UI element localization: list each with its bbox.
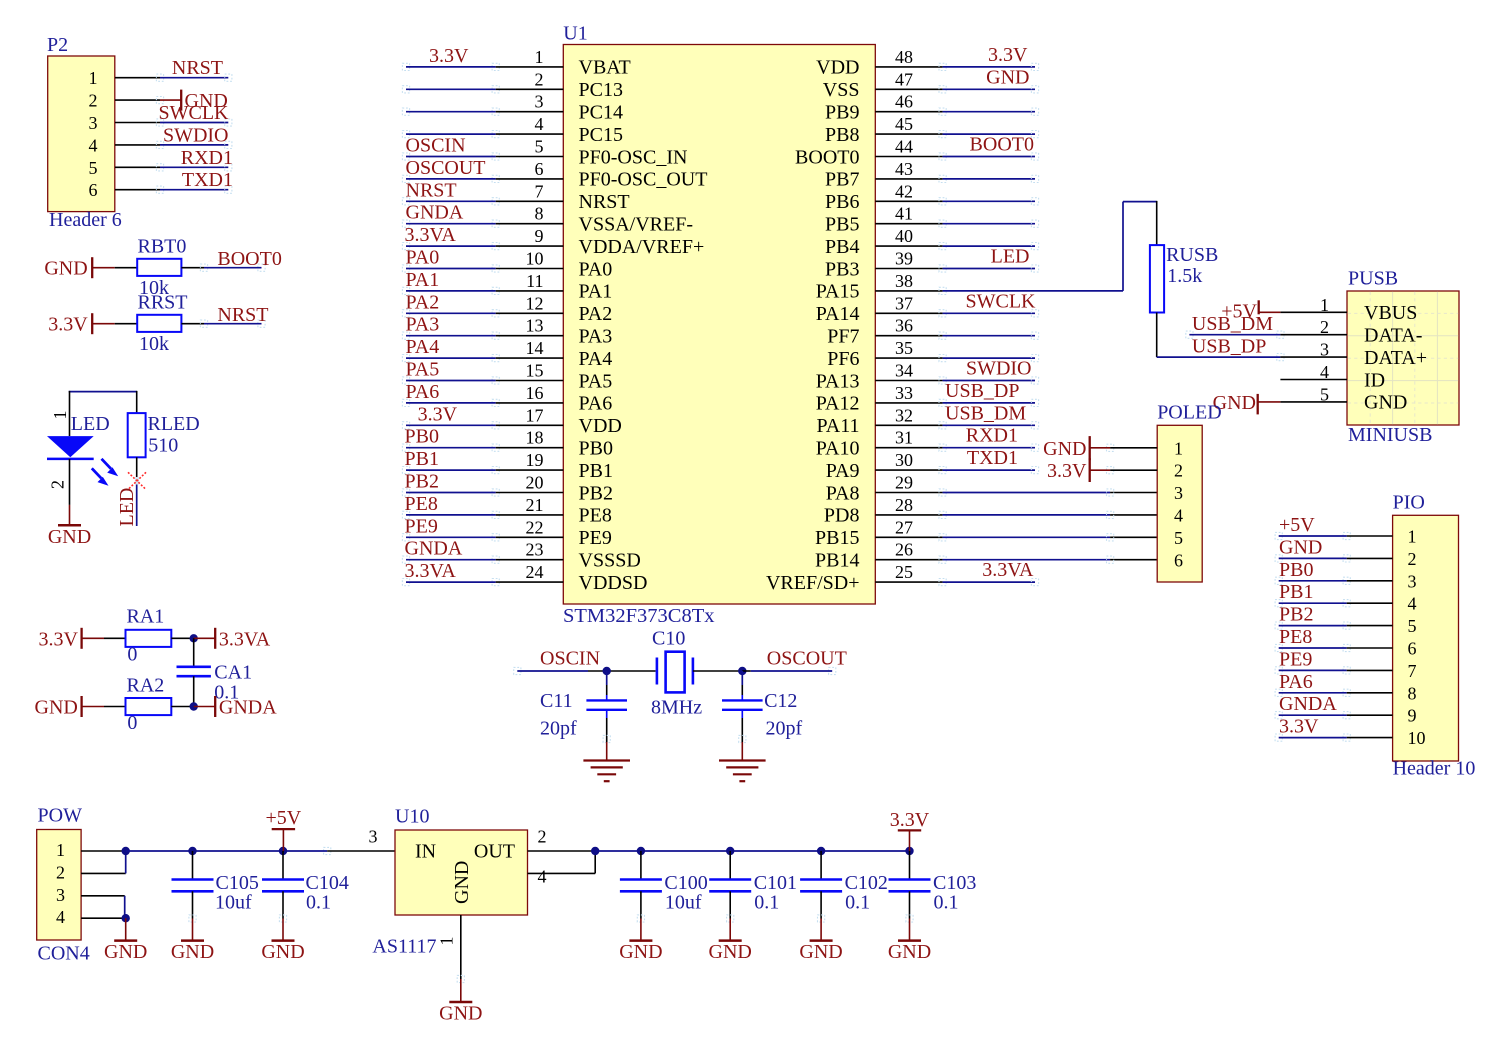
U1 pin 12 (PA2) wire (402, 291, 612, 325)
svg-text:10uf: 10uf (215, 891, 252, 913)
svg-text:PB1: PB1 (1279, 581, 1313, 603)
power port GND (PUSB pin5) (1213, 392, 1281, 415)
svg-text:+5V: +5V (1221, 300, 1257, 322)
PIO pin 5 wire net PB2 (1275, 604, 1416, 637)
svg-text:10: 10 (1408, 728, 1426, 748)
svg-text:1: 1 (1408, 527, 1417, 547)
no-ERC marker (red X) (128, 472, 146, 489)
svg-text:PB1: PB1 (405, 448, 439, 470)
svg-text:PA15: PA15 (816, 281, 860, 303)
U1 pin 18 (PB0) wire (402, 426, 613, 460)
POLED pin 1 (1107, 438, 1184, 458)
svg-text:510: 510 (148, 434, 178, 456)
wire POW pins 3-4 join (124, 896, 126, 918)
POW pin 1 (56, 840, 126, 860)
svg-text:GND: GND (261, 941, 304, 963)
U1 pin 34 (PA13) wire (816, 358, 1039, 393)
svg-text:GND: GND (1364, 392, 1407, 414)
U1 pin 47 (VSS) wire (823, 66, 1039, 101)
U1 pin 19 (PB1) wire (402, 448, 613, 482)
svg-text:GND: GND (1043, 438, 1086, 460)
earth ground (C12) (719, 742, 766, 781)
svg-text:NRST: NRST (217, 304, 268, 326)
svg-text:10uf: 10uf (665, 891, 702, 913)
svg-text:40: 40 (895, 226, 913, 246)
svg-text:0: 0 (127, 644, 137, 666)
wire LED cathode to ground (69, 459, 71, 505)
U1 pin 14 (PA4) wire (402, 336, 612, 370)
node junction POW pin1 (122, 847, 130, 855)
ground GND (POW) (104, 918, 147, 963)
svg-text:PE9: PE9 (579, 527, 612, 549)
U1 pin 11 (PA1) wire (402, 269, 612, 303)
svg-text:2: 2 (538, 827, 547, 847)
svg-text:24: 24 (526, 562, 544, 582)
svg-text:3.3VA: 3.3VA (405, 224, 457, 246)
svg-text:PA1: PA1 (406, 269, 440, 291)
node junction RA2/CA1 (190, 702, 198, 710)
svg-text:20pf: 20pf (766, 718, 803, 740)
U1 pin 15 (PA5) wire (402, 359, 612, 393)
svg-text:PB2: PB2 (1279, 604, 1313, 626)
POLED pin 3 (1174, 483, 1183, 503)
U1 pin 4 (PC15) wire (402, 114, 623, 146)
P2 pin 1 wire (89, 57, 232, 88)
svg-text:PA14: PA14 (816, 303, 860, 325)
svg-text:PIO: PIO (1393, 492, 1425, 514)
wire net OSCIN (514, 648, 656, 675)
svg-text:PA2: PA2 (406, 291, 440, 313)
U1 pin 23 (VSSSD) wire (402, 538, 640, 572)
P2 pin 5 wire (89, 147, 234, 178)
svg-text:PB2: PB2 (579, 482, 613, 504)
PUSB pin 4 (ID) (1280, 362, 1385, 391)
svg-text:PA3: PA3 (579, 326, 613, 348)
svg-text:PA1: PA1 (579, 281, 613, 303)
svg-text:PA9: PA9 (826, 460, 860, 482)
svg-text:3.3V: 3.3V (38, 628, 78, 650)
svg-text:PB14: PB14 (815, 550, 859, 572)
svg-text:PB0: PB0 (405, 426, 439, 448)
U1 pin 26 (PB14) wire (815, 540, 1157, 572)
svg-text:PA13: PA13 (816, 370, 860, 392)
resistor RLED 510 (128, 413, 200, 457)
U1 pin 27 (PB15) wire (815, 517, 1157, 549)
svg-text:2: 2 (89, 91, 98, 111)
wire net LED (below RLED) (116, 457, 138, 526)
capacitor C103 0.1 (889, 847, 977, 919)
U10 pin 1 (GND) wire (437, 915, 461, 979)
svg-text:3.3V: 3.3V (1047, 460, 1087, 482)
svg-text:P2: P2 (47, 34, 68, 56)
ground GND (C100) (619, 915, 662, 963)
svg-text:30: 30 (895, 450, 913, 470)
svg-text:18: 18 (526, 428, 544, 448)
svg-text:2: 2 (56, 862, 65, 882)
power port +5V (PUSB pin1) (1221, 300, 1280, 322)
svg-text:2: 2 (1408, 549, 1417, 569)
svg-text:25: 25 (895, 562, 913, 582)
svg-text:1: 1 (89, 68, 98, 88)
svg-text:GND: GND (799, 941, 842, 963)
svg-text:GND: GND (171, 941, 214, 963)
svg-text:3.3VA: 3.3VA (405, 560, 457, 582)
svg-text:41: 41 (895, 204, 913, 224)
svg-text:DATA-: DATA- (1364, 325, 1422, 347)
svg-text:36: 36 (895, 316, 913, 336)
U1 pin 25 (VREF/SD+) wire (766, 559, 1039, 594)
U1 pin 13 (PA3) wire (402, 314, 612, 348)
svg-text:7: 7 (1408, 661, 1417, 681)
capacitor C105 10uf (172, 847, 259, 919)
svg-text:17: 17 (526, 405, 544, 425)
svg-text:PF7: PF7 (827, 326, 859, 348)
svg-text:+5V: +5V (1279, 514, 1315, 536)
svg-text:SWDIO: SWDIO (163, 124, 229, 146)
svg-text:PB3: PB3 (825, 258, 859, 280)
svg-text:0: 0 (127, 712, 137, 734)
svg-text:27: 27 (895, 517, 913, 537)
node junction POW pin4 (122, 914, 130, 922)
svg-text:1: 1 (50, 411, 70, 420)
P2 pin 6 wire (89, 169, 234, 200)
U1 pin 46 (PB9) wire (825, 92, 1039, 124)
svg-text:8: 8 (535, 204, 544, 224)
svg-text:USB_DP: USB_DP (945, 380, 1019, 402)
svg-text:44: 44 (895, 137, 913, 157)
svg-text:PA4: PA4 (406, 336, 440, 358)
svg-text:PF6: PF6 (827, 348, 859, 370)
svg-text:PB8: PB8 (825, 124, 859, 146)
PIO pin 10 wire net 3.3V (1275, 716, 1425, 749)
svg-text:39: 39 (895, 249, 913, 269)
svg-text:GNDA: GNDA (1279, 693, 1337, 715)
svg-text:C12: C12 (764, 690, 797, 712)
svg-text:6: 6 (535, 159, 544, 179)
svg-text:AS1117: AS1117 (372, 936, 436, 958)
svg-text:PE9: PE9 (1279, 648, 1312, 670)
svg-text:GND: GND (35, 697, 78, 719)
svg-text:12: 12 (526, 293, 544, 313)
capacitor C11 20pf (540, 671, 627, 743)
connector POW (CON4) (37, 805, 90, 965)
svg-text:0.1: 0.1 (934, 891, 959, 913)
U1 pin 29 (PA8) wire (826, 473, 1157, 505)
svg-text:PA8: PA8 (826, 482, 860, 504)
svg-text:8: 8 (1408, 683, 1417, 703)
svg-text:PA11: PA11 (817, 415, 860, 437)
power port 3.3VA (194, 628, 271, 651)
svg-text:10k: 10k (139, 333, 169, 355)
ground GND (LED) (48, 505, 91, 548)
U1 pin 36 (PF7) wire (827, 316, 1038, 348)
wire +5V rail (POW to U10 IN) (126, 847, 395, 854)
U1 pin 38 (PA15) wire (816, 271, 946, 303)
svg-text:7: 7 (535, 181, 544, 201)
ground GND (U10) (439, 975, 482, 1024)
svg-text:Header 10: Header 10 (1393, 758, 1476, 780)
U1 pin 22 (PE9) wire (402, 515, 611, 549)
svg-text:29: 29 (895, 473, 913, 493)
svg-text:PB9: PB9 (825, 102, 859, 124)
svg-text:3.3V: 3.3V (418, 403, 458, 425)
svg-text:NRST: NRST (172, 57, 223, 79)
svg-text:PB1: PB1 (579, 460, 613, 482)
svg-text:GNDA: GNDA (219, 697, 277, 719)
svg-text:5: 5 (535, 137, 544, 157)
U1 pin 35 (PF6) wire (827, 338, 1038, 370)
wire net PA15 to RUSB (943, 201, 1157, 291)
svg-text:U1: U1 (563, 23, 587, 45)
svg-text:VDDA/VREF+: VDDA/VREF+ (579, 236, 705, 258)
svg-text:ID: ID (1364, 369, 1385, 391)
svg-text:OSCIN: OSCIN (406, 135, 466, 157)
U1 pin 17 (VDD) wire (402, 403, 621, 437)
svg-text:37: 37 (895, 293, 913, 313)
svg-text:SWCLK: SWCLK (966, 290, 1037, 312)
resistor RRST 10k (115, 292, 204, 356)
U1 pin 16 (PA6) wire (402, 381, 612, 415)
PIO pin 6 wire net PE8 (1275, 626, 1416, 659)
svg-text:GND: GND (48, 526, 91, 548)
power port 3.3V (rail end) (890, 809, 930, 851)
svg-text:VSSA/VREF-: VSSA/VREF- (579, 214, 693, 236)
svg-text:45: 45 (895, 114, 913, 134)
power port GNDA (194, 696, 278, 719)
svg-text:4: 4 (89, 135, 98, 155)
svg-text:PB0: PB0 (579, 438, 613, 460)
svg-text:PA0: PA0 (579, 258, 613, 280)
capacitor C100 10uf (620, 847, 708, 919)
svg-text:Header 6: Header 6 (49, 209, 122, 231)
power port GND (RA2 input) (35, 696, 104, 719)
U1 pin 45 (PB8) wire (825, 114, 1039, 146)
svg-text:RUSB: RUSB (1166, 244, 1218, 266)
svg-text:PF0-OSC_OUT: PF0-OSC_OUT (579, 169, 708, 191)
ground GND (C104) (261, 915, 304, 963)
svg-text:VREF/SD+: VREF/SD+ (766, 572, 860, 594)
svg-text:OSCOUT: OSCOUT (406, 157, 486, 179)
svg-text:RLED: RLED (148, 413, 200, 435)
P2 pin 2 wire (89, 90, 228, 113)
svg-text:3: 3 (1174, 483, 1183, 503)
power port GND (RBT0 input) (44, 257, 114, 280)
U1 pin 8 (VSSA/VREF-) wire (402, 202, 693, 236)
PIO pin 4 wire net PB1 (1275, 581, 1416, 614)
svg-text:5: 5 (89, 158, 98, 178)
wire net USB_DP (RUSB to PUSB pin3) (1157, 313, 1284, 361)
svg-text:PA6: PA6 (406, 381, 440, 403)
wire net NRST (200, 304, 268, 327)
svg-text:PA4: PA4 (579, 348, 613, 370)
U1 pin 32 (PA11) wire (817, 402, 1039, 437)
U1 pin 9 (VDDA/VREF+) wire (402, 224, 704, 258)
U1 pin 31 (PA10) wire (816, 425, 1039, 460)
U1 pin 7 (NRST) wire (402, 179, 629, 213)
svg-text:RA1: RA1 (127, 605, 165, 627)
POLED pin 2 (1107, 461, 1184, 481)
svg-text:GNDA: GNDA (405, 538, 463, 560)
svg-text:SWCLK: SWCLK (159, 102, 230, 124)
svg-text:PA2: PA2 (579, 303, 613, 325)
svg-text:4: 4 (1174, 506, 1183, 526)
svg-text:PA5: PA5 (579, 370, 613, 392)
capacitor C102 0.1 (800, 847, 888, 919)
node junction OSCOUT (738, 667, 746, 675)
svg-text:OSCIN: OSCIN (540, 648, 600, 670)
earth ground (C11) (583, 742, 630, 781)
svg-text:26: 26 (895, 540, 913, 560)
svg-text:22: 22 (526, 517, 544, 537)
svg-text:4: 4 (1408, 594, 1417, 614)
svg-text:VBAT: VBAT (579, 57, 631, 79)
svg-text:GND: GND (709, 941, 752, 963)
power port GND (POLED pin1) (1043, 436, 1110, 460)
svg-text:RXD1: RXD1 (181, 147, 233, 169)
U1 pin 48 (VDD) wire (816, 44, 1038, 79)
ground GND (C103) (888, 915, 931, 963)
svg-text:RBT0: RBT0 (138, 236, 187, 258)
svg-text:POLED: POLED (1157, 402, 1221, 424)
svg-text:3: 3 (89, 113, 98, 133)
wire net OSCOUT (742, 648, 847, 675)
IC U1 STM32F373C8Tx (563, 23, 875, 627)
svg-text:STM32F373C8Tx: STM32F373C8Tx (563, 605, 715, 627)
svg-text:11: 11 (526, 271, 543, 291)
svg-text:3: 3 (369, 827, 378, 847)
svg-text:GNDA: GNDA (406, 202, 464, 224)
svg-text:21: 21 (526, 495, 544, 515)
U1 pin 1 (VBAT) wire (402, 45, 630, 79)
wire net BOOT0 (200, 248, 281, 271)
svg-text:TXD1: TXD1 (182, 169, 233, 191)
svg-text:GND: GND (888, 941, 931, 963)
svg-text:USB_DM: USB_DM (945, 402, 1026, 424)
U1 pin 33 (PA12) wire (816, 380, 1039, 415)
svg-text:0.1: 0.1 (754, 891, 779, 913)
svg-text:PA6: PA6 (579, 393, 613, 415)
svg-text:OSCOUT: OSCOUT (767, 648, 847, 670)
resistor RA1 0 (104, 605, 194, 665)
svg-text:48: 48 (895, 47, 913, 67)
svg-text:NRST: NRST (406, 179, 457, 201)
svg-text:+5V: +5V (266, 807, 302, 829)
node junction U10 OUT (591, 847, 599, 855)
resistor RA2 0 (104, 675, 194, 734)
svg-text:20: 20 (526, 473, 544, 493)
ground GND (C102) (799, 915, 842, 963)
svg-text:USB_DP: USB_DP (1192, 335, 1266, 357)
svg-text:42: 42 (895, 181, 913, 201)
PIO pin 1 wire net +5V (1275, 514, 1416, 547)
svg-text:LED: LED (116, 488, 138, 527)
svg-text:NRST: NRST (579, 191, 630, 213)
svg-text:PE8: PE8 (405, 493, 438, 515)
U1 pin 37 (PA14) wire (816, 290, 1039, 325)
capacitor C104 0.1 (262, 847, 349, 919)
svg-text:PC13: PC13 (579, 79, 623, 101)
svg-text:RRST: RRST (138, 292, 188, 314)
node junction OSCIN (603, 667, 611, 675)
svg-text:1: 1 (56, 840, 65, 860)
svg-text:IN: IN (415, 841, 436, 863)
svg-text:PB15: PB15 (815, 527, 859, 549)
svg-text:PB6: PB6 (825, 191, 859, 213)
POW pin 3 (56, 885, 125, 905)
svg-text:PB2: PB2 (405, 471, 439, 493)
capacitor CA1 0.1 (177, 638, 253, 706)
svg-text:GND: GND (451, 861, 473, 904)
svg-text:2: 2 (48, 480, 68, 489)
svg-text:31: 31 (895, 428, 913, 448)
svg-text:1: 1 (1174, 438, 1183, 458)
svg-text:BOOT0: BOOT0 (217, 248, 281, 270)
resistor RUSB 1.5k (1150, 244, 1218, 313)
svg-text:BOOT0: BOOT0 (970, 134, 1034, 156)
svg-text:1.5k: 1.5k (1167, 265, 1202, 287)
U1 pin 10 (PA0) wire (402, 247, 612, 281)
svg-text:14: 14 (526, 338, 544, 358)
svg-text:VDDSD: VDDSD (579, 572, 648, 594)
wire POW pins 1-2 join (125, 851, 127, 873)
svg-text:PD8: PD8 (824, 505, 860, 527)
svg-text:23: 23 (526, 540, 544, 560)
svg-text:0.1: 0.1 (845, 891, 870, 913)
PUSB pin 2 (DATA-) (1280, 317, 1422, 346)
svg-text:PA10: PA10 (816, 438, 860, 460)
U1 pin 42 (PB6) wire (825, 181, 1039, 213)
svg-text:15: 15 (526, 361, 544, 381)
svg-text:VSS: VSS (823, 79, 860, 101)
P2 pin 3 wire (89, 102, 232, 133)
power port 3.3V (POLED pin2) (1047, 458, 1110, 482)
U10 pin 4 wire (528, 851, 596, 887)
svg-text:38: 38 (895, 271, 913, 291)
svg-text:3.3V: 3.3V (1279, 716, 1319, 738)
svg-text:BOOT0: BOOT0 (795, 146, 859, 168)
svg-text:DATA+: DATA+ (1364, 347, 1427, 369)
U1 pin 44 (BOOT0) wire (795, 134, 1039, 169)
PIO pin 2 wire net GND (1275, 536, 1416, 569)
svg-text:13: 13 (526, 316, 544, 336)
U1 pin 39 (PB3) wire (825, 246, 1039, 281)
svg-text:4: 4 (538, 867, 547, 887)
svg-text:32: 32 (895, 405, 913, 425)
POW pin 2 (56, 862, 126, 882)
wire 3.3V rail (U10 OUT to caps) (595, 850, 910, 852)
svg-text:GND: GND (439, 1003, 482, 1025)
power port 3.3V (RRST input) (48, 313, 114, 336)
svg-text:19: 19 (526, 450, 544, 470)
svg-text:43: 43 (895, 159, 913, 179)
svg-text:20pf: 20pf (540, 718, 577, 740)
svg-text:PB7: PB7 (825, 169, 859, 191)
svg-text:RXD1: RXD1 (966, 425, 1018, 447)
svg-text:GND: GND (986, 66, 1029, 88)
svg-text:3.3VA: 3.3VA (982, 559, 1034, 581)
PUSB pin 1 (VBUS) (1280, 295, 1417, 324)
U1 pin 28 (PD8) wire (824, 495, 1157, 527)
connector PUSB (MINIUSB) (1347, 268, 1459, 446)
svg-text:PA12: PA12 (816, 393, 860, 415)
power port 3.3V (RA1 input) (38, 628, 104, 651)
svg-text:6: 6 (1408, 639, 1417, 659)
regulator U10 AS1117 (372, 806, 527, 958)
U1 pin 40 (PB4) wire (825, 226, 1039, 258)
PUSB pin 3 (DATA+) (1280, 340, 1427, 369)
connector PIO (Header 10) (1393, 492, 1476, 780)
crystal C10 8MHz (651, 627, 742, 718)
